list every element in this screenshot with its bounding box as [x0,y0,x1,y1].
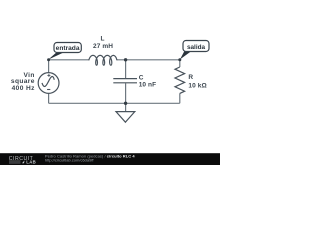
source plus sign [47,74,50,77]
salida flag tail [180,51,191,60]
wire left branch [48,60,50,104]
footer logo LAB [22,160,25,163]
capacitor C plates [113,79,137,83]
source sine wave [42,77,54,87]
salida flag box [183,41,209,52]
junction dot top (L-C-R node) [124,58,127,61]
junction dot bottom (C-ground node) [124,102,127,105]
wire resistor branch [179,60,181,104]
resistor R zigzag [175,67,185,93]
wire capacitor branch [125,60,127,104]
wire top left segment [49,59,90,61]
svg-text:10 nF: 10 nF [139,82,156,89]
svg-text:400 Hz: 400 Hz [12,85,35,92]
footer logo lines [9,161,21,163]
svg-text:27 mH: 27 mH [93,43,113,50]
svg-text:L: L [100,36,104,43]
footer bar [0,153,220,165]
inductor L1 coil [89,55,117,65]
source minus sign [47,89,50,91]
svg-text:C: C [139,74,144,81]
node dot entrada [47,58,50,61]
svg-text:salida: salida [187,44,206,51]
entrada flag box [54,43,81,53]
wire ground stub [125,103,127,111]
svg-text:http://circuitlab.com/c6da9ff: http://circuitlab.com/c6da9ff [45,158,95,163]
svg-text:R: R [188,74,193,81]
ground symbol [116,112,135,123]
voltage source V1 circle [38,73,59,94]
entrada flag tail [48,52,64,60]
svg-text:entrada: entrada [56,45,80,52]
node dot salida [178,58,181,61]
svg-text:LAB: LAB [26,159,36,164]
wire bottom [49,102,180,104]
wire top right segment [117,59,180,61]
svg-text:10 kΩ: 10 kΩ [188,82,206,89]
